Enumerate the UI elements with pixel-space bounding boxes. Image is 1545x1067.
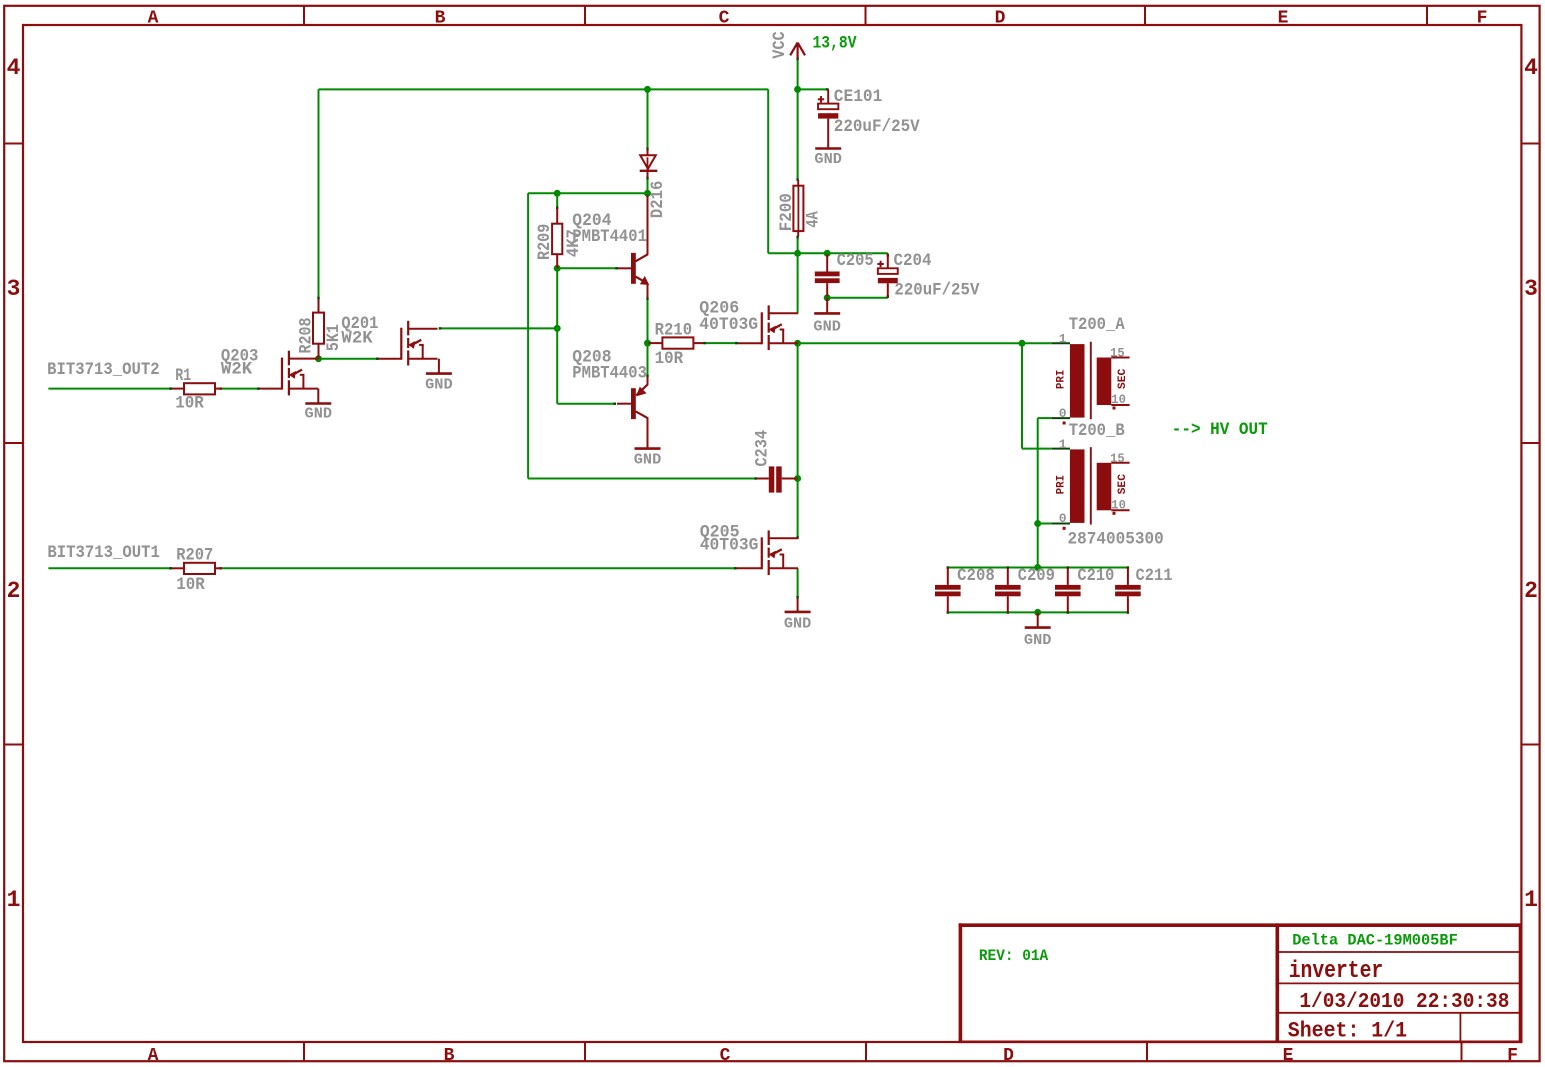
svg-text:SEC: SEC [1117,368,1129,389]
resistor R1 [172,383,222,394]
svg-text:Sheet: 1/1: Sheet: 1/1 [1288,1019,1407,1044]
svg-text:BIT3713_OUT2: BIT3713_OUT2 [47,360,160,380]
svg-text:A: A [148,1046,159,1066]
transformer T200_B [1056,437,1130,530]
svg-text:0: 0 [1059,511,1067,526]
junction R209 bottom / Q204 base [554,265,561,272]
ground GND under CE101 [814,149,842,169]
svg-text:1: 1 [7,887,21,913]
svg-text:GND: GND [305,406,333,422]
svg-text:GND: GND [784,616,812,632]
wire R207 to Q205 gate [222,567,737,569]
fuse F200 [793,180,803,237]
svg-text:B: B [435,9,446,29]
svg-text:3: 3 [1524,276,1538,302]
wire R209 top [556,193,558,208]
svg-text:PRI: PRI [1056,370,1068,390]
svg-text:C: C [719,9,730,29]
svg-text:13,8V: 13,8V [813,34,857,54]
svg-text:R207: R207 [176,546,213,566]
wire down to capacitor rail [1037,524,1039,568]
svg-text:40T03G: 40T03G [699,315,758,335]
svg-text:15: 15 [1110,451,1125,466]
junction T200 pin0 node [1034,520,1041,527]
capacitor C204 [877,253,897,297]
wire T200_A pin0 down [1038,417,1052,419]
capacitor C210 [1055,568,1081,613]
svg-text:C211: C211 [1136,566,1173,586]
pin T200_B 0 [1052,523,1070,525]
svg-text:3: 3 [7,276,21,302]
svg-text:40T03G: 40T03G [700,536,759,556]
resistor R208 [313,299,324,359]
capacitor C234 [757,466,798,492]
transistor Q208 PMBT4403 [617,377,648,432]
ground GND under C205 [813,298,841,336]
junction Q201 drain node [554,325,561,332]
wire capacitor top rail [948,567,1128,569]
junction capacitor bottom rail / GND [1034,609,1041,616]
wire T200_B pin0 [1038,523,1052,525]
svg-text:D216: D216 [648,181,668,219]
junction C205 top [824,250,831,257]
transistor Q201 W2K [379,321,438,366]
ground GND under Q201 [425,359,453,394]
frame right row ticks [1521,144,1539,745]
ground GND under capacitor bank [1024,612,1052,649]
pin joints [169,58,1128,614]
wire right vertical to C205 node [767,89,769,253]
svg-text:C204: C204 [894,251,932,271]
wire Q208 base [557,403,615,405]
svg-text:B: B [444,1046,455,1066]
svg-text:inverter: inverter [1289,958,1384,985]
wire left long vertical [527,193,529,478]
resistor R210 [649,337,704,348]
svg-text:220uF/25V: 220uF/25V [894,281,979,301]
svg-text:D: D [1003,1046,1014,1066]
wire VCC to CE101 [798,88,828,90]
svg-text:Delta DAC-19M005BF: Delta DAC-19M005BF [1292,931,1458,949]
svg-text:2: 2 [7,578,21,604]
wire node to Q208 emitter [647,343,649,376]
wire Q201 drain to node [439,327,557,329]
svg-text:2874005300: 2874005300 [1068,530,1164,550]
svg-text:PMBT4403: PMBT4403 [572,364,647,384]
wire D216 anode [647,89,649,149]
diode D216 [640,149,658,178]
svg-text:T200_A: T200_A [1069,315,1125,335]
junction T200 pin1 branch [1019,340,1026,347]
svg-text:R210: R210 [655,321,693,341]
capacitor C209 [995,568,1021,613]
svg-text:CE101: CE101 [834,87,883,107]
wire R1 to Q203 gate [222,388,260,390]
svg-text:10: 10 [1111,392,1126,407]
svg-text:1/03/2010 22:30:38: 1/03/2010 22:30:38 [1299,991,1509,1014]
wire Q204 emitter to node [647,299,649,343]
svg-text:R209: R209 [535,224,555,260]
svg-text:10R: 10R [175,394,204,414]
junction VCC rail / D216 anode [644,86,651,93]
frame left row ticks [5,144,24,745]
title block dividers [1277,923,1521,1042]
svg-text:C234: C234 [753,430,773,467]
wire node down to C234 and Q205 drain [797,343,799,538]
svg-text:W2K: W2K [221,360,253,380]
transistor Q203 W2K [260,351,319,396]
svg-text:E: E [1278,9,1289,29]
svg-text:W2K: W2K [341,329,373,349]
wire to C234 [528,478,757,480]
resistor R207 [172,563,222,574]
wire left drop to R208 [318,89,320,299]
svg-text:10: 10 [1111,497,1126,512]
junction capacitor top rail [1034,564,1041,571]
svg-text:A: A [148,9,159,29]
wire VCC to F200 [797,89,799,180]
svg-text:220uF/25V: 220uF/25V [834,117,920,137]
title block REV box [959,923,1522,1042]
junction R209 top [554,190,561,197]
svg-text:F: F [1477,9,1488,29]
svg-text:15: 15 [1110,346,1125,361]
pin T200_B 1 [1052,448,1070,450]
wire R210 to Q206 gate [706,342,738,344]
svg-text:1: 1 [1059,437,1067,452]
junction C205 bottom / GND [824,294,831,301]
pin T200_A 1 [1052,342,1070,344]
svg-text:C209: C209 [1018,566,1055,586]
svg-text:GND: GND [814,152,842,168]
svg-text:GND: GND [1024,633,1052,649]
resistor R209 [552,208,562,268]
ground GND under Q203 [305,389,333,423]
svg-text:REV: 01A: REV: 01A [979,947,1049,965]
junction R208 / Q203 drain / Q201 gate [315,355,322,362]
frame bottom column ticks [304,1042,1462,1061]
wire BIT3713_OUT2 to R1 [48,388,172,390]
svg-text:2: 2 [1524,578,1538,604]
frame column letters top [148,9,1488,29]
wire C205-C204 bottom link [827,297,888,299]
svg-text:F: F [1507,1046,1518,1066]
svg-text:0: 0 [1059,406,1067,421]
junction Q206 source node [794,340,801,347]
supply VCC arrow [790,43,805,59]
svg-text:T200_B: T200_B [1069,421,1125,441]
svg-text:BIT3713_OUT1: BIT3713_OUT1 [47,543,159,563]
svg-text:1: 1 [1059,332,1067,347]
wire R209 to Q204 base [557,267,617,269]
svg-text:GND: GND [634,452,662,468]
svg-text:C208: C208 [957,566,995,586]
svg-text:GND: GND [425,378,453,394]
svg-text:GND: GND [813,319,841,335]
svg-text:C: C [720,1046,731,1066]
transistor Q204 PMBT4401 [618,195,649,298]
wire top horizontal rail [319,88,769,90]
svg-text:VCC: VCC [770,31,790,59]
frame top column ticks [304,6,1427,25]
svg-text:10R: 10R [655,349,684,369]
frame row numbers left [7,55,21,913]
svg-text:C210: C210 [1077,566,1114,586]
wire branch to T200_B pin1 [1021,343,1023,448]
transformer T200_A [1056,332,1130,425]
pin T200_A 0 [1052,417,1070,419]
svg-text:1: 1 [1524,887,1538,913]
wire VCC stem [797,58,799,89]
svg-text:4A: 4A [804,211,824,228]
junction F200 / Q206 drain [794,250,801,257]
capacitor C208 [935,568,961,613]
transistor Q206 40T03G [738,305,799,350]
wire F200 to node [797,237,799,254]
ground GND under Q208 [634,430,662,468]
wire capacitor bottom rail [948,611,1128,613]
junction C234 / Q205 drain [794,475,801,482]
svg-text:D: D [995,9,1006,29]
capacitor CE101 [818,89,839,148]
junction VCC / CE101 [794,86,801,93]
svg-text:10R: 10R [176,575,205,595]
wire D216 cathode to node [647,172,649,193]
wire R208 node to Q201 gate [319,358,379,360]
frame column letters bottom [148,1046,1518,1066]
transistor Q205 40T03G [737,530,799,575]
ground GND under Q205 [784,599,812,633]
wire BIT3713_OUT1 to R207 [48,567,172,569]
wire C205 node horizontal [768,252,888,254]
svg-text:SEC: SEC [1117,473,1129,494]
svg-text:R1: R1 [175,366,191,386]
frame row numbers right [1524,55,1538,913]
svg-text:F200: F200 [777,193,797,231]
svg-text:4: 4 [7,55,21,81]
wire node to Q206 drain [797,253,799,313]
svg-text:C205: C205 [837,251,874,271]
capacitor C205 [815,255,840,297]
junction D216 cathode / Q204 collector [644,190,651,197]
wire mid horizontal node [528,192,647,194]
junction R210 / Q204 emitter / Q208 emitter [644,340,651,347]
capacitor C211 [1115,568,1141,613]
svg-text:PRI: PRI [1056,475,1068,495]
svg-text:--> HV OUT: --> HV OUT [1172,420,1268,440]
wire Q206 source to T200_A pin1 [798,342,1052,344]
svg-text:PMBT4401: PMBT4401 [572,227,647,247]
svg-text:R208: R208 [296,318,316,354]
svg-text:4: 4 [1524,55,1538,81]
wire R209 vertical to Q208 base [556,268,558,403]
wire Q205 source to ground [797,568,799,598]
svg-text:E: E [1283,1046,1294,1066]
